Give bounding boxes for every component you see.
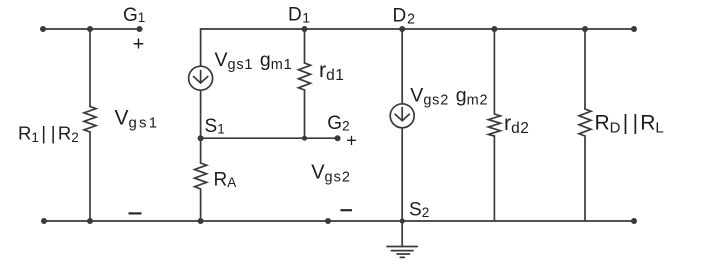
current source U1 arrow — [200, 71, 202, 83]
resistor rd2 — [488, 114, 500, 136]
wire top-left G1 rail — [43, 28, 140, 30]
wire RD||RL to bottom — [584, 136, 586, 221]
wire branch x=305 (D1) top — [304, 29, 306, 63]
ground — [387, 246, 417, 248]
resistor R1||R2 — [84, 107, 96, 133]
wire branch x=90 bottom — [89, 132, 91, 221]
wire top rail D1-D2-output — [201, 28, 634, 30]
node G2 terminal — [335, 135, 341, 141]
node S1 — [198, 135, 204, 141]
current source U2 circle — [390, 104, 414, 128]
svg-text:Vgs1: Vgs1 — [115, 107, 160, 132]
svg-text:D1: D1 — [288, 5, 310, 26]
resistor RD||RL — [579, 109, 591, 136]
node output top right — [631, 26, 637, 32]
node junction x=90 top — [87, 26, 93, 32]
svg-text:R1||R2: R1||R2 — [18, 123, 79, 146]
svg-text:D2: D2 — [393, 6, 416, 28]
wire branch x=402 (D2) top — [401, 29, 403, 104]
wire bottom rail — [44, 220, 634, 222]
svg-text:S2: S2 — [409, 199, 429, 220]
svg-text:rd1: rd1 — [319, 58, 344, 84]
node D1 — [302, 26, 308, 32]
wire rd2 to bottom — [493, 136, 495, 221]
node D2 — [399, 26, 405, 32]
svg-text:+: + — [133, 34, 145, 56]
label minus at Vgs2 bottom — [340, 209, 352, 211]
svg-text:Vgs2 gm2: Vgs2 gm2 — [410, 84, 488, 108]
wire rd1 to S1-G2 wire — [304, 90, 306, 138]
resistor rd1 — [299, 63, 311, 90]
svg-text:S1: S1 — [205, 116, 225, 137]
node Vgs2 minus reference — [325, 218, 331, 224]
node junction rd2 top — [491, 26, 497, 32]
wire S1 to G2 — [201, 137, 338, 139]
wire S2 to ground — [401, 221, 403, 247]
current source U1 circle — [189, 66, 213, 90]
label minus at Vgs1 bottom — [129, 212, 142, 214]
wire U2 to bottom rail — [401, 128, 403, 221]
svg-text:RA: RA — [214, 169, 237, 190]
svg-text:Vgs2: Vgs2 — [311, 161, 351, 185]
wire branch x=90 top — [89, 29, 91, 107]
wire x=200.6 circle to RA — [200, 90, 202, 163]
svg-text:rd2: rd2 — [504, 111, 529, 137]
resistor RA — [195, 163, 207, 189]
svg-text:G1: G1 — [123, 5, 145, 26]
node dot top-left end — [40, 26, 46, 32]
node junction RD||RL top — [582, 26, 588, 32]
node junction x=90 bottom — [87, 218, 93, 224]
wire RA to bottom — [200, 189, 202, 221]
node bottom-left end — [41, 218, 47, 224]
current source U2 arrow — [401, 108, 403, 121]
wire branch x=200.6 top — [200, 29, 202, 66]
wire branch x=494.4 top — [493, 29, 495, 114]
svg-text:Vgs1 gm1: Vgs1 gm1 — [215, 49, 293, 73]
node S2 — [400, 218, 405, 223]
node junction RA bottom — [198, 218, 204, 224]
node bottom right end — [631, 218, 637, 224]
svg-text:+: + — [346, 131, 357, 151]
wire branch x=585 top — [584, 29, 586, 109]
node junction rd1 bottom — [302, 136, 307, 141]
svg-text:RD||RL: RD||RL — [595, 112, 664, 137]
node G1 terminal — [137, 26, 143, 32]
